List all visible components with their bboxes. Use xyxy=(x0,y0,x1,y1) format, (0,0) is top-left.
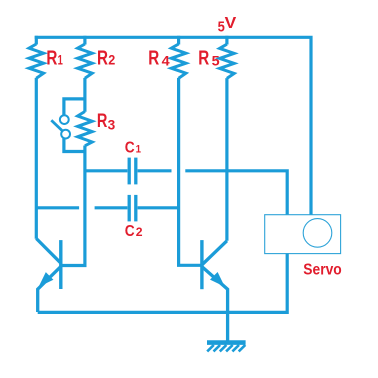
resistor R3 xyxy=(78,112,93,146)
wire bottom rail with right rise to servo bottom xyxy=(38,253,288,312)
svg-text:Servo: Servo xyxy=(303,262,342,279)
label R2 xyxy=(97,48,115,70)
switch S1 terminal lower xyxy=(61,130,70,139)
wire switch loop top connector xyxy=(64,99,85,115)
svg-text:1: 1 xyxy=(136,143,141,155)
svg-text:R: R xyxy=(46,48,57,70)
wire switch loop bottom connector xyxy=(64,138,85,151)
wire R1 branch down to Q1 collector xyxy=(35,78,38,239)
ground hatch strokes xyxy=(207,345,245,352)
svg-text:C: C xyxy=(125,139,135,156)
svg-text:5: 5 xyxy=(212,52,220,68)
transistor Q2 base bar xyxy=(200,240,203,289)
resistor R2 xyxy=(78,36,93,78)
wire C1 left to R2 branch xyxy=(85,169,128,172)
wire R5 branch down to Q2 collector xyxy=(225,78,228,241)
svg-text:2: 2 xyxy=(108,52,115,68)
wire C2 right to R4 branch xyxy=(138,206,179,209)
transistor Q2 collector lead xyxy=(202,241,227,265)
label C1 xyxy=(125,139,141,156)
wire R4 branch down to Q2 base xyxy=(179,78,201,265)
svg-text:R: R xyxy=(97,48,108,70)
wire C2 left segment to plate xyxy=(95,206,128,209)
label 5V xyxy=(218,15,237,35)
wire C1 right (crossover gap at R4) xyxy=(138,169,172,172)
svg-text:R: R xyxy=(148,48,159,70)
transistor Q2 emitter arrow xyxy=(210,272,225,287)
wire R2 branch upper xyxy=(83,78,86,112)
svg-text:C: C xyxy=(125,223,135,240)
resistor R1 xyxy=(29,36,44,78)
wire R2/R3 branch down to Q1 base xyxy=(60,146,85,266)
svg-text:3: 3 xyxy=(108,117,116,133)
switch S1 lever xyxy=(51,120,62,131)
capacitor C2 xyxy=(129,195,136,222)
svg-text:4: 4 xyxy=(162,52,170,68)
wire top 5V rail with right drop to servo xyxy=(35,37,311,214)
transistor Q2 emitter lead down through rail to ground xyxy=(202,267,228,341)
resistor R4 xyxy=(171,36,186,78)
svg-text:1: 1 xyxy=(58,52,63,68)
transistor Q1 emitter lead down to bottom rail xyxy=(38,267,61,312)
ground bar xyxy=(207,340,246,345)
servo box xyxy=(265,215,341,254)
label R1 xyxy=(46,48,63,70)
label R5 xyxy=(198,48,220,70)
svg-text:2: 2 xyxy=(136,225,143,239)
svg-text:R: R xyxy=(198,48,209,70)
label C2 xyxy=(125,223,143,240)
svg-text:V: V xyxy=(225,15,237,32)
capacitor C1 xyxy=(129,158,136,185)
transistor Q1 collector lead xyxy=(36,239,60,263)
switch S1 terminal upper xyxy=(60,115,69,124)
resistor R5 xyxy=(220,36,235,79)
label R4 xyxy=(148,48,170,70)
transistor Q1 base bar xyxy=(59,240,62,289)
transistor Q1 emitter arrow xyxy=(39,272,54,287)
wire C1 right continued to servo top xyxy=(185,171,287,215)
wire C2 left from Q1 collector branch (crossover gap at R2) xyxy=(36,206,79,209)
svg-text:R: R xyxy=(97,111,108,132)
servo shaft circle xyxy=(303,219,332,248)
label R3 xyxy=(97,111,115,133)
